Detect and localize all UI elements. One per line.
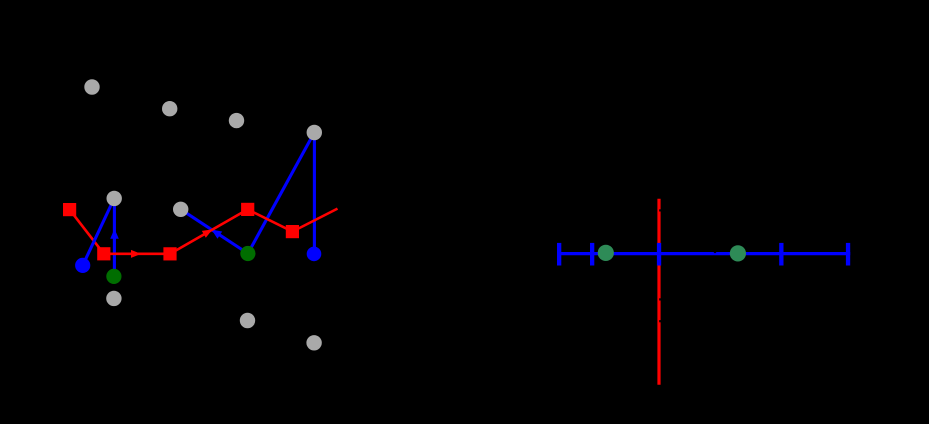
wire: blue segment G6 to N2 [181,209,248,253]
tick T1 left end cap [557,243,561,266]
node G7: gray data point [106,291,121,306]
black notch on red line 2 [659,298,661,300]
node G3: gray data point [229,113,244,128]
node G4: gray data point [307,125,322,140]
wire: red vertical axis line (right panel) [657,199,660,385]
tick T3 center [657,243,661,266]
node G1: gray data point [84,79,99,94]
wire: blue vertical segment G5 to N1 [113,198,116,276]
blue arrow up on vertical segment [110,229,119,239]
node B2: blue point [307,247,322,262]
node S2: red square iterate [97,247,110,260]
wire: blue horizontal axis line (right panel) [557,252,850,255]
black notch on blue line [713,252,716,254]
tick T5 right end cap [846,243,850,266]
node S3: red square iterate [163,247,176,260]
node G6: gray data point [173,202,188,217]
node G5: gray data point [107,191,122,206]
node S5: red square iterate [286,225,299,238]
black notch on red line 3 [659,320,661,322]
node B1: blue point [75,258,90,273]
tick T4 [779,243,783,266]
wire: red path S1-S2-S3-S4-S5-end [70,209,338,254]
red arrow right on segment S2-S3 [131,250,141,258]
node G9: gray data point [306,335,321,350]
node G8: gray data point [240,313,255,328]
red arrow up-right on segment S3-S4 [202,229,213,237]
node S4: red square iterate [241,203,254,216]
wire: blue segment N2 to G4 [248,133,314,254]
black notch on red line 1 [659,209,661,211]
node N2: dark green point [240,246,255,261]
node G2: gray data point [162,101,177,116]
blue arrow up-left on segment G6-N2 [212,230,223,239]
wire: blue segment B1 to G5 (drawn over red path) [83,198,115,265]
node P2: sea green point (right panel) [730,245,746,261]
wire: blue vertical segment G4 to B2 [313,133,316,254]
node S1: red square iterate [63,203,76,216]
tick T2 [590,243,594,266]
node N1: dark green point [106,269,121,284]
node P1: sea green point (right panel) [598,245,614,261]
